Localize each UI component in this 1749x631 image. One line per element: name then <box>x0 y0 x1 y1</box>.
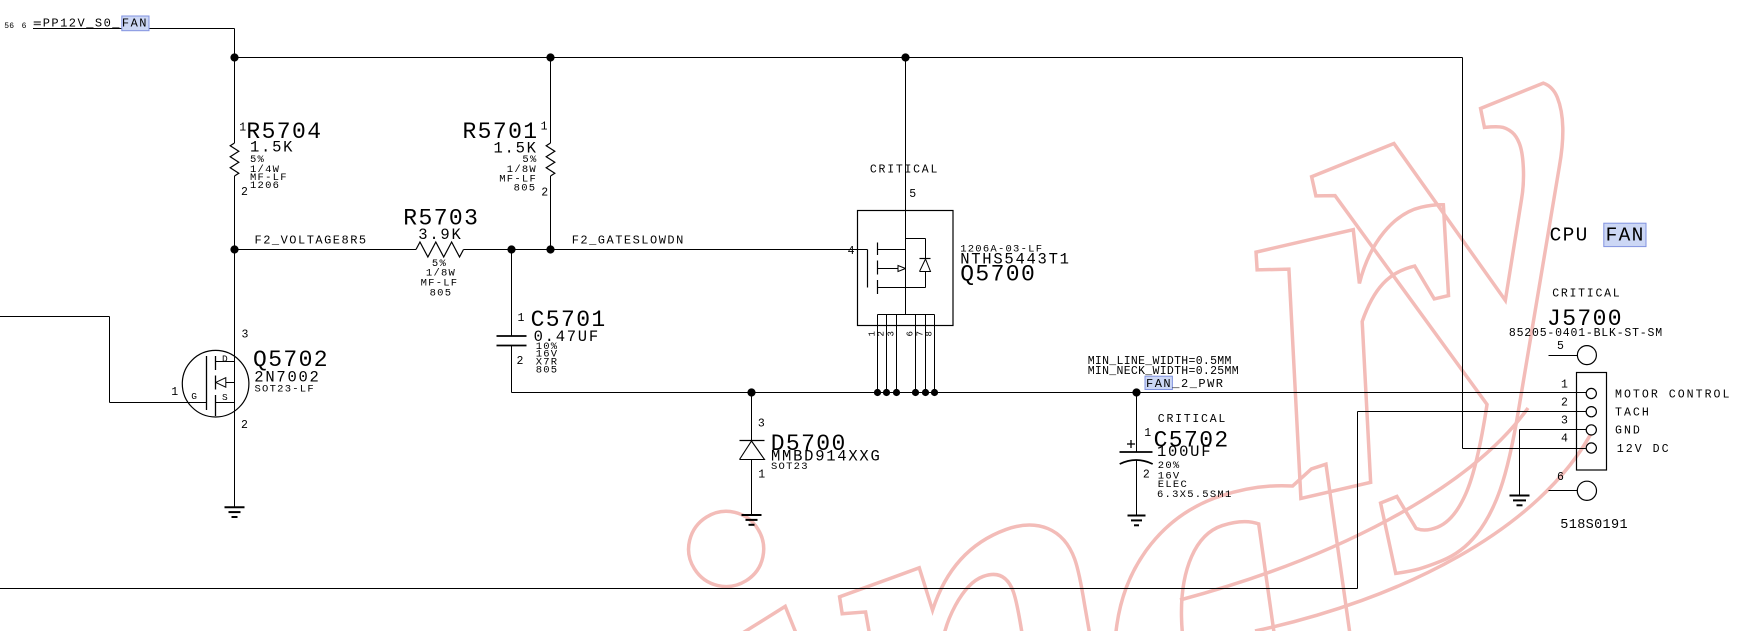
svg-text:2: 2 <box>517 355 524 368</box>
svg-text:2: 2 <box>1143 469 1150 482</box>
svg-text:FAN: FAN <box>1606 225 1645 247</box>
svg-text:SOT23-LF: SOT23-LF <box>255 384 315 396</box>
svg-text:FAN: FAN <box>1146 377 1172 391</box>
svg-text:3: 3 <box>758 417 765 430</box>
svg-text:G: G <box>191 391 197 402</box>
svg-text:6: 6 <box>1557 471 1564 484</box>
svg-text:S: S <box>222 392 228 403</box>
svg-text:1: 1 <box>1561 379 1568 392</box>
svg-text:8: 8 <box>925 331 935 336</box>
svg-text:CRITICAL: CRITICAL <box>870 163 939 176</box>
svg-text:GND: GND <box>1615 425 1642 438</box>
svg-text:F2_VOLTAGE8R5: F2_VOLTAGE8R5 <box>255 234 368 248</box>
svg-text:CRITICAL: CRITICAL <box>1158 413 1227 426</box>
svg-text:1206: 1206 <box>250 180 280 192</box>
svg-text:MOTOR CONTROL: MOTOR CONTROL <box>1615 388 1731 401</box>
svg-text:6: 6 <box>906 331 916 336</box>
svg-text:85205-0401-BLK-ST-SM: 85205-0401-BLK-ST-SM <box>1509 327 1663 340</box>
svg-text:CPU: CPU <box>1550 225 1589 247</box>
svg-text:2: 2 <box>877 331 887 336</box>
svg-text:D: D <box>222 354 228 365</box>
svg-text:4: 4 <box>848 245 855 258</box>
svg-text:1: 1 <box>239 122 246 135</box>
svg-text:3.9K: 3.9K <box>418 226 462 244</box>
svg-text:518S0191: 518S0191 <box>1560 518 1628 533</box>
svg-text:6.3X5.5SM1: 6.3X5.5SM1 <box>1157 489 1233 501</box>
svg-text:3: 3 <box>242 329 249 342</box>
svg-text:3: 3 <box>1561 414 1568 427</box>
svg-text:2: 2 <box>1561 396 1568 409</box>
svg-text:2: 2 <box>541 187 548 200</box>
svg-text:FAN: FAN <box>122 17 148 31</box>
svg-text:5: 5 <box>1557 340 1564 353</box>
svg-text:4: 4 <box>1561 433 1568 446</box>
svg-text:805: 805 <box>514 183 537 195</box>
svg-text:1: 1 <box>518 312 525 325</box>
svg-text:805: 805 <box>430 287 453 299</box>
svg-text:5: 5 <box>909 188 916 201</box>
svg-text:Q5700: Q5700 <box>960 262 1036 288</box>
svg-text:805: 805 <box>536 365 559 377</box>
svg-text:1: 1 <box>758 469 765 482</box>
svg-text:_2_PWR: _2_PWR <box>1171 377 1224 391</box>
svg-text:F2_GATESLOWDN: F2_GATESLOWDN <box>572 234 685 248</box>
svg-text:12V DC: 12V DC <box>1617 443 1671 456</box>
svg-text:2: 2 <box>241 186 248 199</box>
svg-text:3: 3 <box>887 331 897 336</box>
svg-text:6: 6 <box>22 22 27 31</box>
svg-text:2: 2 <box>241 419 248 432</box>
svg-text:56: 56 <box>4 22 14 31</box>
svg-text:SOT23: SOT23 <box>771 461 809 473</box>
svg-text:100UF: 100UF <box>1157 443 1212 461</box>
svg-text:TACH: TACH <box>1615 407 1651 420</box>
svg-text:CRITICAL: CRITICAL <box>1552 287 1621 300</box>
svg-text:1: 1 <box>1144 427 1151 440</box>
svg-text:PP12V_S0_: PP12V_S0_ <box>43 17 121 31</box>
svg-text:1: 1 <box>541 120 548 133</box>
svg-text:1: 1 <box>171 386 178 399</box>
